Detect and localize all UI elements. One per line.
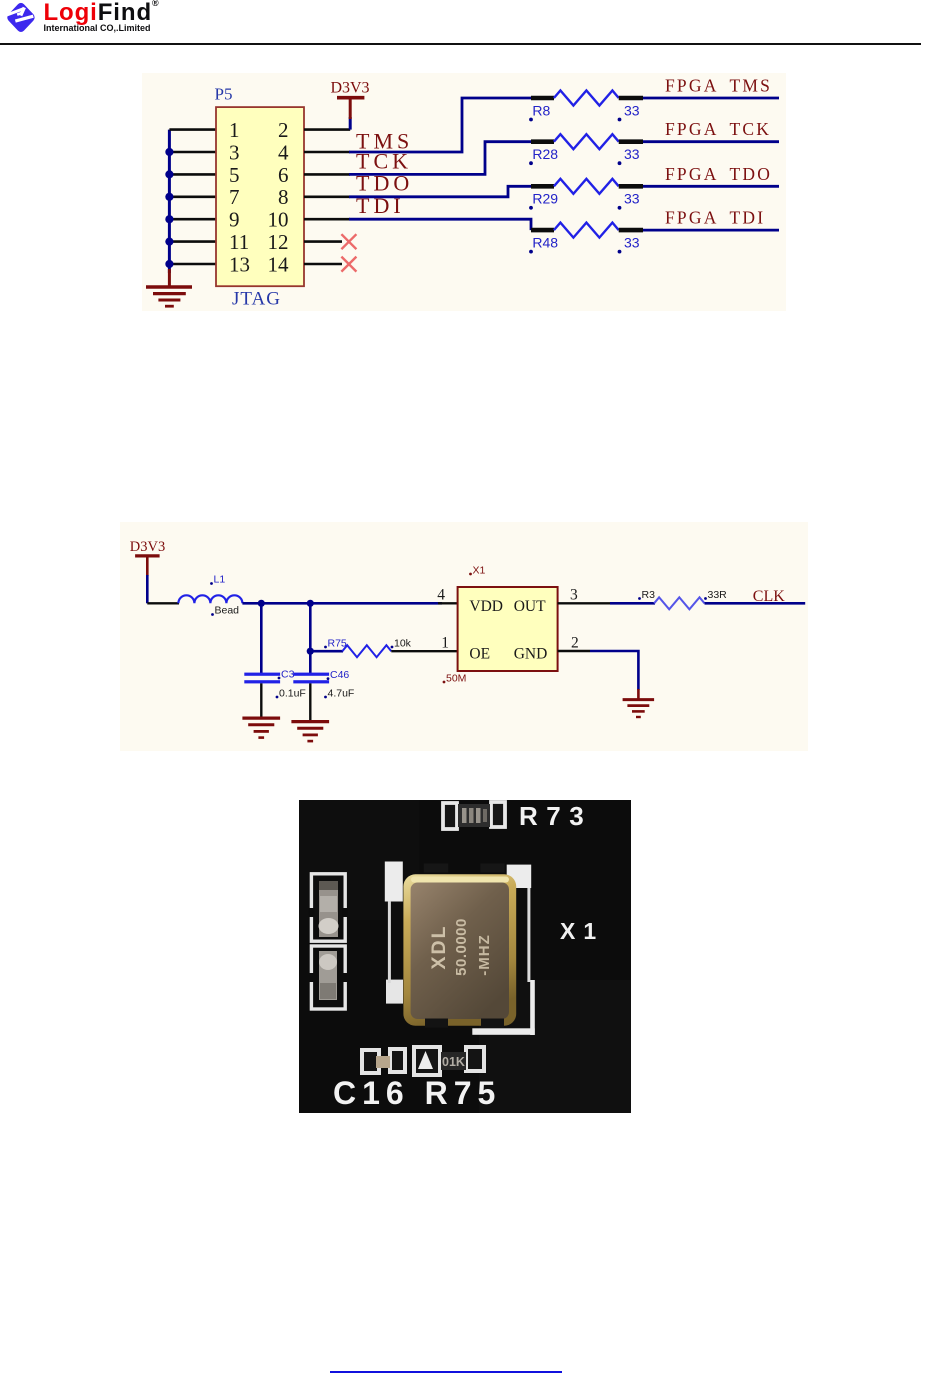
wire: pin14 lead bbox=[304, 263, 342, 266]
power D3V3 bar bbox=[135, 554, 160, 557]
svg-text:FPGA TCK: FPGA TCK bbox=[665, 119, 771, 139]
wire: pin5 lead bbox=[169, 173, 216, 176]
crystal X1 outer bbox=[403, 874, 516, 1026]
svg-text:JTAG: JTAG bbox=[232, 289, 281, 310]
wire: TCK net bbox=[349, 142, 532, 175]
svg-text:4: 4 bbox=[437, 587, 445, 604]
svg-text:C46: C46 bbox=[330, 669, 349, 681]
wire: pin8 lead bbox=[304, 196, 350, 199]
R3 designator bbox=[638, 597, 641, 600]
resistor R75 body bbox=[441, 1052, 466, 1070]
PCB photo bbox=[299, 800, 631, 1113]
wire: FPGA_TDI out bbox=[643, 229, 779, 232]
connector P5 body bbox=[216, 107, 304, 286]
wire: FPGA_TCK out bbox=[643, 140, 779, 143]
svg-text:R8: R8 bbox=[532, 102, 550, 118]
resistor R29 bbox=[529, 179, 643, 210]
svg-text:L1: L1 bbox=[214, 574, 226, 586]
svg-text:CLK: CLK bbox=[753, 588, 785, 605]
crystal notches top bbox=[424, 864, 448, 873]
wire: pin13 lead bbox=[169, 263, 216, 266]
svg-text:FPGA TMS: FPGA TMS bbox=[665, 76, 772, 96]
cap footprint left lower bbox=[311, 946, 345, 1009]
crystal pad top-left bbox=[385, 862, 403, 902]
svg-text:X1: X1 bbox=[560, 918, 604, 944]
silk line left bbox=[388, 901, 391, 983]
svg-text:R29: R29 bbox=[532, 191, 558, 207]
svg-text:50M: 50M bbox=[446, 672, 466, 684]
crystal bottom notches bbox=[425, 1019, 448, 1028]
svg-text:14: 14 bbox=[268, 252, 290, 276]
no-connect X pin12 bbox=[341, 234, 356, 249]
wire: C3 vertical bbox=[260, 603, 263, 673]
wire: TDO net bbox=[349, 186, 532, 197]
svg-text:7: 7 bbox=[229, 185, 240, 209]
footer blue rule bbox=[330, 1371, 562, 1373]
wire: FPGA_TDO out bbox=[643, 185, 779, 188]
svg-text:D3V3: D3V3 bbox=[330, 80, 369, 97]
junction dot pin3 bbox=[165, 148, 173, 156]
svg-text:P5: P5 bbox=[215, 85, 233, 104]
junction node C46 bbox=[307, 600, 314, 607]
silk bracket bottom-right bbox=[530, 980, 535, 1035]
wire: pin2 to ground bbox=[590, 651, 638, 690]
wire: stem to main bbox=[146, 575, 149, 603]
wire: CLK out bbox=[705, 602, 806, 605]
wire: pin10 lead bbox=[304, 218, 350, 221]
crystal pad top-right bbox=[507, 865, 532, 888]
svg-text:4: 4 bbox=[278, 140, 289, 164]
wire: C46 to ground bbox=[309, 683, 311, 721]
pcb background bbox=[299, 800, 631, 1113]
wire: pin2 lead bbox=[558, 650, 590, 652]
svg-text:R3: R3 bbox=[642, 589, 656, 601]
svg-text:12: 12 bbox=[268, 230, 289, 254]
inductor L1 bbox=[178, 595, 242, 603]
svg-text:33R: 33R bbox=[708, 589, 728, 601]
svg-text:X1: X1 bbox=[473, 564, 486, 576]
wire: pin11 lead bbox=[169, 240, 216, 243]
R75 designator bbox=[324, 646, 327, 649]
junction dot pin13 bbox=[165, 260, 173, 268]
junction dot pin9 bbox=[165, 215, 173, 223]
footprint R75 pads bbox=[414, 1047, 484, 1075]
crystal top highlight bbox=[411, 877, 509, 883]
svg-text:33: 33 bbox=[624, 234, 640, 250]
L1 designator bbox=[210, 582, 213, 585]
resistor R8 bbox=[529, 91, 643, 122]
svg-text:0.1uF: 0.1uF bbox=[279, 687, 306, 699]
resistor R75 bbox=[342, 645, 391, 657]
wire: C46 vertical bbox=[309, 603, 312, 673]
resistor R73 body bbox=[458, 804, 490, 827]
wire: FPGA_TMS out bbox=[643, 97, 779, 100]
svg-text:33: 33 bbox=[624, 146, 640, 162]
svg-text:R73: R73 bbox=[519, 801, 592, 831]
svg-text:10k: 10k bbox=[394, 637, 412, 649]
ground C3 bbox=[242, 718, 280, 738]
pin numbers left column bbox=[229, 118, 250, 276]
wire: pin4 lead bbox=[438, 602, 458, 604]
svg-text:Bead: Bead bbox=[215, 605, 240, 617]
no-connect X pin14 bbox=[341, 257, 356, 272]
svg-text:D3V3: D3V3 bbox=[130, 539, 165, 555]
X1 value 50M bbox=[443, 681, 446, 684]
X1 designator bbox=[469, 573, 472, 576]
wire: ground bus vertical bbox=[168, 130, 171, 273]
L1 value Bead bbox=[211, 613, 214, 616]
svg-text:33: 33 bbox=[624, 102, 640, 118]
svg-text:R48: R48 bbox=[532, 234, 558, 250]
wire: pin3 lead bbox=[558, 602, 610, 604]
wire: TDI net bbox=[349, 219, 531, 230]
svg-text:2: 2 bbox=[278, 118, 289, 142]
svg-text:5: 5 bbox=[229, 163, 240, 187]
svg-text:2: 2 bbox=[571, 634, 579, 651]
resistor R48 bbox=[529, 223, 643, 254]
svg-text:OE: OE bbox=[469, 646, 490, 663]
svg-text:3: 3 bbox=[229, 140, 240, 164]
wire: R75 left bbox=[310, 650, 343, 653]
wire: pin7 lead bbox=[169, 196, 216, 199]
svg-text:1: 1 bbox=[229, 118, 240, 142]
ground C46 bbox=[291, 722, 329, 742]
svg-text:TDI: TDI bbox=[356, 193, 405, 218]
ground GND stem bbox=[637, 689, 640, 700]
footprint R73 pads bbox=[443, 802, 505, 829]
svg-text:01K: 01K bbox=[442, 1055, 465, 1069]
junction node R75 bbox=[307, 648, 314, 655]
wire: TMS net bbox=[349, 98, 532, 152]
crystal inner body bbox=[411, 883, 509, 1020]
svg-text:-MHZ: -MHZ bbox=[476, 934, 493, 976]
wire: C3 to ground bbox=[260, 683, 262, 718]
svg-text:8: 8 bbox=[278, 185, 289, 209]
crystal pad bottom-left bbox=[386, 980, 403, 1004]
silk line right bbox=[527, 888, 530, 982]
svg-text:C3: C3 bbox=[281, 668, 295, 680]
C3 designator bbox=[278, 677, 281, 680]
wire: pin3 lead bbox=[169, 151, 216, 154]
R75 value 10k bbox=[391, 646, 394, 649]
C46 designator bbox=[327, 677, 330, 680]
wire: R75 right lead bbox=[391, 650, 457, 652]
svg-text:1: 1 bbox=[441, 634, 449, 651]
svg-text:VDD: VDD bbox=[469, 598, 503, 615]
svg-text:R28: R28 bbox=[532, 146, 558, 162]
wire: pin1 lead bbox=[169, 128, 216, 131]
wire: pin6 lead bbox=[304, 173, 350, 176]
capacitor C3 bbox=[244, 673, 280, 676]
pin numbers right column bbox=[268, 118, 290, 276]
svg-text:C16 R75: C16 R75 bbox=[333, 1075, 501, 1111]
schematic 2 (oscillator) bbox=[120, 522, 808, 751]
junction dot pin7 bbox=[165, 193, 173, 201]
svg-text:11: 11 bbox=[229, 230, 249, 254]
logo icon bbox=[0, 0, 44, 40]
cap footprint left upper bbox=[311, 874, 345, 941]
wire: pin2 lead bbox=[304, 128, 350, 131]
svg-text:4.7uF: 4.7uF bbox=[328, 687, 355, 699]
wire: to R3 bbox=[610, 602, 655, 605]
svg-text:6: 6 bbox=[278, 163, 289, 187]
svg-text:50.0000: 50.0000 bbox=[453, 918, 470, 976]
svg-text:FPGA TDI: FPGA TDI bbox=[665, 208, 765, 228]
svg-text:9: 9 bbox=[229, 208, 240, 232]
junction dot pin11 bbox=[165, 238, 173, 246]
logo text bbox=[44, 0, 160, 27]
svg-text:R75: R75 bbox=[328, 637, 347, 649]
ground bbox=[146, 269, 192, 306]
wire: power stem blue part bbox=[349, 117, 352, 130]
svg-text:10: 10 bbox=[268, 208, 289, 232]
footprint C16 pads bbox=[362, 1049, 405, 1073]
R3 value 33R bbox=[704, 597, 707, 600]
power stem bbox=[146, 556, 149, 576]
ground GND bbox=[623, 700, 655, 717]
wire: pin4 lead bbox=[304, 151, 350, 154]
wire: pin12 lead bbox=[304, 240, 342, 243]
svg-text:GND: GND bbox=[514, 646, 548, 663]
power D3V3 symbol bbox=[349, 98, 352, 119]
resistor R3 bbox=[654, 597, 704, 609]
cap body left lower bbox=[319, 951, 337, 1000]
junction node C3 bbox=[258, 600, 265, 607]
R75 arrow mark bbox=[418, 1051, 433, 1069]
C3 value bbox=[276, 696, 279, 699]
svg-text:13: 13 bbox=[229, 252, 250, 276]
wire: pin9 lead bbox=[169, 218, 216, 221]
header rule bbox=[0, 43, 921, 45]
wire: main horizontal bbox=[242, 602, 442, 605]
svg-text:3: 3 bbox=[570, 587, 578, 604]
oscillator X1 body bbox=[458, 587, 558, 671]
schematic 1 (JTAG) bbox=[142, 73, 786, 311]
resistor R28 bbox=[529, 134, 643, 165]
cap C16 body bbox=[376, 1056, 390, 1068]
C46 value bbox=[324, 696, 327, 699]
svg-text:OUT: OUT bbox=[514, 598, 546, 615]
svg-text:XDL: XDL bbox=[428, 925, 450, 970]
capacitor C46 bbox=[293, 673, 329, 676]
junction dot pin5 bbox=[165, 170, 173, 178]
wire: main into inductor bbox=[147, 602, 179, 604]
cap body left upper bbox=[319, 881, 338, 937]
white band cuts bbox=[7, 7, 25, 16]
svg-text:33: 33 bbox=[624, 191, 640, 207]
svg-text:FPGA TDO: FPGA TDO bbox=[665, 164, 772, 184]
logo subtitle bbox=[44, 23, 151, 33]
svg-text:TDO: TDO bbox=[356, 171, 413, 196]
